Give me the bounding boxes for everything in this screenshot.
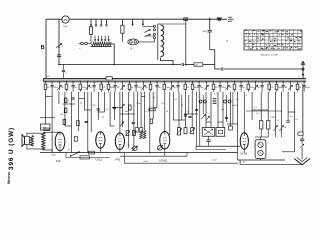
wire link	[173, 119, 185, 121]
capacitor comb	[93, 82, 95, 84]
wire drop	[152, 92, 154, 119]
junction dots HT line	[58, 64, 60, 66]
resistor mains R	[121, 25, 124, 33]
wire speaker top	[27, 133, 43, 136]
wire drop	[251, 92, 253, 120]
wire selector base	[89, 43, 91, 45]
wire drop	[237, 92, 239, 153]
svg-text:0,1: 0,1	[175, 99, 178, 101]
pot arrow comb	[289, 82, 291, 84]
IF can 1	[202, 128, 215, 137]
svg-text:50: 50	[187, 87, 189, 89]
svg-text:50: 50	[166, 111, 168, 113]
wire drop	[83, 92, 85, 110]
resistor comb	[268, 82, 270, 84]
svg-text:B: B	[41, 45, 45, 51]
wire drop	[222, 92, 224, 128]
svg-text:a+42: a+42	[240, 161, 246, 163]
capacitor mid	[71, 97, 74, 99]
wire drop	[90, 92, 92, 132]
pot arrow comb	[142, 82, 144, 84]
wire bus 3	[44, 81, 307, 83]
capacitor comb	[282, 82, 284, 84]
extra verticals right mid	[181, 95, 183, 120]
mains cord termination	[228, 16, 232, 18]
capacitor mid	[132, 121, 135, 123]
trimmer box b	[133, 131, 136, 136]
svg-text:1M: 1M	[89, 87, 92, 89]
wire tube3 cathode down	[119, 149, 121, 152]
svg-text:2x0,1: 2x0,1	[46, 76, 51, 78]
svg-text:5000: 5000	[278, 87, 282, 89]
resistor mid	[77, 121, 80, 126]
wire link	[112, 107, 123, 109]
wire drop	[178, 92, 180, 128]
svg-text:0,1: 0,1	[67, 101, 70, 103]
svg-text:5000: 5000	[306, 87, 310, 89]
resistor comb	[129, 82, 131, 84]
resistor comb	[192, 82, 194, 84]
svg-text:F12: F12	[56, 159, 61, 163]
electrolytic capacitor can	[255, 140, 266, 159]
svg-text:50: 50	[75, 87, 77, 89]
box right	[298, 132, 303, 135]
wire drop	[164, 92, 166, 132]
heater pin circle	[224, 100, 227, 103]
wire drop	[71, 92, 73, 153]
tube UY1N	[240, 133, 248, 149]
svg-text:5000: 5000	[138, 87, 142, 89]
capacitor C on x59	[57, 54, 61, 56]
box mid	[140, 128, 143, 132]
capacitor 5000	[208, 29, 212, 31]
wire left drop node B	[45, 19, 47, 78]
capacitor below HT line	[63, 65, 65, 70]
resistor comb	[45, 82, 47, 84]
wire drop	[144, 92, 146, 131]
wire drop	[109, 92, 111, 126]
wire link	[84, 109, 91, 111]
resistor comb	[276, 82, 278, 84]
wire HT line B	[215, 68, 221, 70]
resistor comb	[150, 82, 152, 84]
IF can 2	[216, 128, 225, 137]
capacitor comb	[198, 82, 200, 84]
box 7000	[44, 128, 49, 131]
coil pair mid	[140, 130, 143, 138]
valve data table	[244, 30, 302, 50]
wire drop	[274, 92, 276, 125]
resistor comb	[297, 82, 299, 84]
wire speaker bottom	[27, 145, 43, 149]
wire drop	[260, 92, 262, 121]
svg-text:5000: 5000	[166, 87, 170, 89]
resistor mid	[64, 98, 67, 103]
switch a	[56, 44, 61, 48]
wire bottom 6	[124, 162, 238, 164]
heater pin circle	[228, 100, 231, 103]
capacitor comb	[156, 82, 158, 84]
wire drop	[113, 92, 115, 120]
wire can bottom	[260, 159, 262, 160]
wire bottom 7	[238, 159, 286, 161]
capacitor mid right	[286, 120, 289, 122]
wire drop	[185, 92, 187, 128]
wire bottom 2	[196, 145, 240, 147]
capacitor below IF can	[206, 139, 210, 141]
svg-text:1M: 1M	[285, 87, 288, 89]
resistor comb	[108, 82, 110, 84]
resistor mid	[64, 108, 67, 113]
wire drop	[97, 92, 99, 120]
svg-text:~: ~	[79, 46, 81, 50]
mains dropper resistor	[92, 42, 112, 46]
svg-text:0,5: 0,5	[106, 109, 109, 111]
wire link	[120, 113, 135, 115]
output transformer	[42, 132, 45, 150]
svg-text:50: 50	[243, 87, 245, 89]
pot arrow mid	[206, 116, 210, 120]
voltage selector pin 2	[95, 19, 97, 24]
wire drop	[287, 92, 289, 120]
wire drop	[133, 92, 135, 150]
svg-text:UCH11: UCH11	[159, 159, 168, 163]
pot arrow comb	[255, 82, 257, 84]
wire can top	[260, 137, 262, 140]
svg-text:50: 50	[257, 113, 259, 115]
wire coil top across	[160, 23, 185, 25]
capacitor mid	[188, 115, 191, 117]
svg-text:50: 50	[131, 87, 133, 89]
resistor comb	[79, 82, 81, 84]
wire verticals bottom	[123, 153, 125, 164]
wire link	[288, 111, 295, 113]
tube UY11	[96, 132, 105, 148]
wire link	[252, 109, 261, 111]
capacitor mid	[184, 114, 187, 116]
svg-text:1M: 1M	[145, 87, 148, 89]
svg-text:1M: 1M	[257, 87, 260, 89]
wire transformer bottom	[43, 150, 52, 153]
heater pin circle	[199, 100, 202, 103]
svg-text:50: 50	[80, 103, 82, 105]
potentiometer boxes	[178, 128, 181, 136]
svg-text:50: 50	[103, 87, 105, 89]
wire tube5 cathode down	[243, 149, 245, 152]
wire link	[206, 121, 211, 123]
box on bottom 1	[88, 151, 94, 154]
antenna	[302, 62, 304, 79]
pot arrow comb	[226, 82, 228, 84]
svg-text:7000: 7000	[44, 129, 48, 131]
svg-text:5000: 5000	[54, 87, 58, 89]
band switch W	[71, 152, 80, 156]
capacitor comb	[261, 82, 263, 84]
wire drop	[156, 92, 158, 108]
resistor PSU 1	[260, 121, 263, 129]
pot arrow comb	[171, 82, 173, 84]
wire drop	[210, 92, 212, 128]
wire drop	[104, 92, 106, 112]
wire drop	[137, 92, 139, 128]
dropper taps	[94, 36, 96, 41]
resistor comb	[163, 82, 165, 84]
pot arrow mid	[120, 122, 124, 126]
tube F12	[55, 132, 65, 151]
wire link	[261, 109, 268, 111]
wire x302.8 drop	[302, 84, 304, 132]
svg-text:UY1N: UY1N	[240, 152, 247, 156]
series resistor on bus	[106, 77, 112, 80]
resistor mid	[149, 108, 155, 111]
capacitor small box T2 grid	[74, 137, 77, 142]
wire oval to switch	[138, 41, 154, 43]
svg-text:1M: 1M	[173, 87, 176, 89]
wire drop	[172, 92, 174, 120]
switch contact column	[153, 25, 155, 27]
wire jog to HT	[210, 50, 215, 69]
svg-text:5000: 5000	[125, 111, 129, 113]
pot arrow comb	[58, 82, 60, 84]
resistor mid	[129, 105, 132, 110]
wire drop	[51, 92, 53, 153]
voltage selector pin 1	[90, 19, 92, 24]
speaker field coil	[30, 135, 33, 145]
wire drop	[229, 92, 231, 126]
table cell marks	[245, 30, 303, 49]
choke coil	[157, 24, 159, 60]
wire drop x209.75	[209, 18, 211, 30]
capacitor comb	[135, 82, 137, 84]
svg-text:2000: 2000	[137, 103, 141, 105]
capacitor comb	[114, 82, 116, 84]
ground symbol	[294, 159, 310, 165]
wire bottom 9	[282, 151, 295, 153]
svg-text:5000: 5000	[222, 87, 226, 89]
wire link	[227, 123, 238, 125]
svg-text:100: 100	[221, 109, 224, 111]
pot arrow PSU	[280, 125, 284, 131]
wire link	[79, 98, 85, 100]
speaker	[22, 135, 25, 147]
wire tube1 cathode down	[59, 151, 61, 153]
wire drop x142.9 plug arrow	[142, 19, 144, 24]
capacitor comb	[177, 82, 179, 84]
wire link	[110, 125, 114, 127]
wire drop	[140, 92, 142, 128]
box mid	[135, 128, 138, 132]
svg-text:F42: F42	[116, 158, 121, 162]
capacitor on HT line	[181, 63, 183, 66]
resistor comb	[184, 82, 186, 84]
wire link	[46, 96, 53, 98]
pot arrow comb	[87, 82, 89, 84]
wire drop	[205, 92, 207, 128]
wire link	[141, 96, 145, 98]
wire drop x122	[121, 19, 123, 25]
svg-text:50: 50	[299, 87, 301, 89]
wire drop	[149, 92, 151, 154]
resistor comb	[247, 82, 249, 84]
capacitor extra	[225, 116, 228, 118]
pot arrow mid	[121, 104, 125, 108]
heater pin circle	[204, 100, 207, 103]
svg-text:50: 50	[215, 87, 217, 89]
switch wipers	[145, 30, 151, 33]
capacitor comb	[240, 82, 242, 84]
resistor comb	[100, 82, 102, 84]
wire link	[153, 107, 157, 109]
svg-text:0,3: 0,3	[214, 94, 217, 96]
svg-text:1500: 1500	[270, 117, 274, 119]
wire tube2 cathode down	[99, 148, 101, 152]
capacitor comb	[51, 82, 53, 84]
wire drop	[87, 92, 89, 153]
wire drop	[199, 92, 201, 146]
trimmer cap 1	[133, 146, 138, 151]
fuse holder oval Si	[128, 39, 139, 45]
resistor comb	[234, 82, 236, 84]
svg-text:UY11: UY11	[96, 158, 103, 162]
wire drop	[169, 92, 171, 135]
svg-text:300: 300	[60, 114, 63, 116]
svg-text:5000: 5000	[250, 87, 254, 89]
wire drop	[302, 92, 304, 132]
wire link	[98, 111, 104, 113]
wire drop	[128, 92, 130, 146]
capacitor mid	[97, 108, 100, 110]
pot arrow comb	[205, 82, 207, 84]
wire drop x59	[58, 19, 60, 64]
wire drop x185.8	[185, 19, 187, 64]
box DPW	[41, 124, 51, 130]
mains plug	[81, 42, 84, 45]
wire top mains rail	[46, 18, 62, 20]
trimmer box a	[126, 131, 129, 136]
resistor on selector column	[89, 27, 92, 35]
svg-text:Minerva: Minerva	[7, 172, 11, 184]
antenna coupling circle	[302, 68, 304, 70]
wire transformer to tube	[43, 131, 60, 133]
voltage selector pin 3	[100, 19, 102, 24]
pot arrow mid	[202, 115, 206, 119]
svg-text:4: 4	[246, 95, 247, 97]
svg-text:0,1: 0,1	[153, 97, 156, 99]
box DG	[185, 64, 195, 66]
svg-text:1M: 1M	[201, 87, 204, 89]
capacitor right	[300, 138, 304, 140]
wire HT line A	[58, 64, 181, 66]
wire drop	[217, 92, 219, 128]
svg-text:0,1: 0,1	[254, 107, 257, 109]
svg-text:0,2: 0,2	[146, 111, 149, 113]
wire link	[40, 117, 55, 119]
wire tube4 cathode down	[164, 149, 166, 156]
wire drop	[45, 92, 47, 119]
wire link	[184, 113, 198, 115]
wire bus 1	[44, 77, 307, 79]
svg-text:5000: 5000	[82, 87, 86, 89]
wire drop	[191, 92, 193, 128]
wire bottom 8	[240, 163, 302, 165]
wire drop	[78, 92, 80, 131]
capacitor mid	[85, 120, 88, 122]
svg-text:70: 70	[162, 103, 164, 105]
resistor comb	[213, 82, 215, 84]
wire link	[65, 125, 72, 127]
wire link right	[246, 110, 282, 112]
resistor mid	[150, 119, 153, 123]
wire bus join	[43, 78, 45, 81]
wire bottom 1	[40, 152, 238, 154]
trimmer cap 2	[158, 146, 163, 151]
capacitor comb	[219, 82, 221, 84]
svg-text:1M: 1M	[117, 87, 120, 89]
wire drop	[122, 92, 124, 127]
wire drop	[281, 92, 283, 125]
wire drop	[64, 92, 66, 126]
capacitor mid	[113, 106, 116, 108]
svg-text:Meßwerte in V/µF: Meßwerte in V/µF	[261, 53, 279, 56]
resistor comb	[66, 82, 68, 84]
svg-text:5: 5	[198, 97, 199, 99]
svg-text:1M: 1M	[61, 87, 64, 89]
svg-text:0,2: 0,2	[296, 119, 299, 121]
svg-text:18: 18	[284, 127, 286, 129]
svg-text:50: 50	[159, 87, 161, 89]
svg-text:1M: 1M	[229, 87, 232, 89]
svg-text:a-b1: a-b1	[144, 161, 149, 163]
resistor PSU 2	[267, 121, 270, 129]
connector marks on rail	[217, 18, 222, 19]
svg-text:0,5: 0,5	[290, 116, 293, 118]
wire dropper to HT line	[111, 44, 114, 65]
wire drop	[243, 92, 245, 133]
capacitor on HT line B	[220, 67, 222, 70]
svg-text:1+12: 1+12	[212, 159, 218, 161]
svg-text:50: 50	[271, 87, 273, 89]
voltage selector pin 4	[105, 19, 107, 24]
wire HT line A cont	[203, 64, 215, 66]
svg-text:0,1: 0,1	[277, 120, 280, 122]
svg-text:396 U (GW): 396 U (GW)	[8, 127, 15, 170]
svg-text:5000: 5000	[110, 87, 114, 89]
svg-text:5000: 5000	[194, 87, 198, 89]
wire link	[218, 121, 223, 123]
svg-text:50: 50	[47, 87, 49, 89]
stack capacitor	[213, 98, 217, 100]
wire drop	[119, 92, 121, 133]
fuse on rail	[184, 18, 188, 21]
capacitor comb	[303, 82, 305, 84]
wire drop	[267, 92, 269, 121]
svg-text:0,1: 0,1	[236, 99, 239, 101]
pot arrow PSU	[273, 125, 277, 131]
wire link	[63, 103, 76, 105]
tube UCH11	[160, 132, 170, 149]
wire drop	[58, 92, 60, 104]
pot arrow comb	[121, 82, 123, 84]
svg-text:25: 25	[102, 117, 104, 119]
wire bottom 5 with box	[66, 157, 110, 159]
wire bus 2	[44, 79, 307, 81]
wire drop x132.6 plug arrow	[132, 19, 134, 24]
wire bottom 4	[120, 155, 187, 157]
wire bottom 3	[196, 149, 226, 151]
wire drop	[294, 92, 296, 152]
dial lamp LSp	[62, 16, 69, 23]
resistor mid	[63, 120, 66, 125]
